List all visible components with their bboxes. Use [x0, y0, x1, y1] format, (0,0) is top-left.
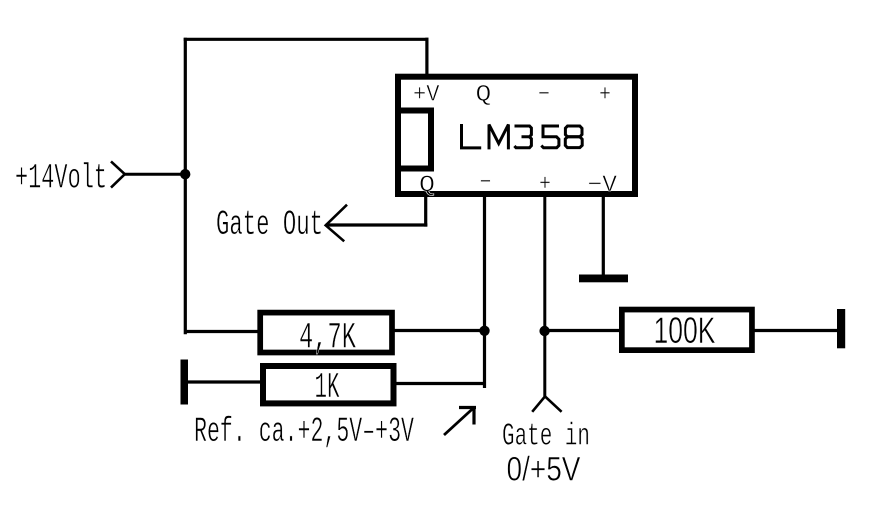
wire: 1K right: [395, 382, 486, 385]
wire: 100K left: [546, 329, 620, 332]
arrowhead Gate Out: [326, 205, 347, 242]
pointer arrow to ref divider: [444, 408, 474, 436]
node: +14V junction: [180, 169, 190, 179]
wire: +V pin drop to U1: [425, 38, 428, 76]
terminal bar 1K left: [181, 360, 189, 405]
svg-text:+V: +V: [413, 82, 440, 108]
svg-text:1K: 1K: [315, 367, 340, 408]
svg-text:100K: 100K: [654, 310, 716, 351]
terminal bar 100K right: [837, 309, 845, 348]
wire: +14Volt feed: [125, 173, 186, 176]
svg-text:Ref. ca.+2,5V–+3V: Ref. ca.+2,5V–+3V: [194, 412, 414, 452]
wire: non-inverting pin drop: [543, 194, 546, 396]
pin-1 notch on U1: [398, 111, 431, 169]
wire: +V rail top horizontal: [184, 38, 429, 41]
svg-text:+14Volt: +14Volt: [15, 159, 107, 199]
op-amp U1 LM358 body: [398, 77, 635, 194]
wire: 4,7K right: [394, 329, 485, 332]
wire: 1K left: [188, 380, 261, 383]
wire: 4,7K left: [184, 330, 258, 333]
svg-text:Q: Q: [476, 82, 492, 108]
svg-text:+: +: [539, 171, 551, 197]
input chevron Gate in: [532, 396, 561, 411]
svg-text:Gate Out: Gate Out: [216, 205, 323, 245]
svg-text:Gate in: Gate in: [502, 420, 590, 455]
node: gate-in junction: [539, 326, 549, 336]
ground bar: [579, 275, 628, 283]
label LM358: [462, 124, 583, 149]
svg-text:4,7K: 4,7K: [299, 318, 356, 360]
wire: 100K right: [754, 329, 838, 332]
input chevron +14Volt: [111, 161, 125, 187]
wire: inverting pin drop: [483, 194, 486, 388]
resistor 4,7K body: [260, 313, 392, 353]
resistor 100K body: [622, 310, 752, 351]
svg-text:0/+5V: 0/+5V: [507, 451, 581, 489]
node: feedback junction: [479, 326, 489, 336]
wire: +V rail left vertical: [184, 38, 187, 335]
wire: Gate Out horizontal: [326, 223, 428, 226]
svg-text:+: +: [599, 82, 611, 108]
resistor 1K body: [263, 366, 394, 403]
svg-text:−: −: [538, 82, 550, 108]
wire: Q output pin drop: [424, 194, 427, 227]
svg-text:−: −: [480, 170, 492, 196]
wire: -V pin drop: [602, 194, 605, 278]
